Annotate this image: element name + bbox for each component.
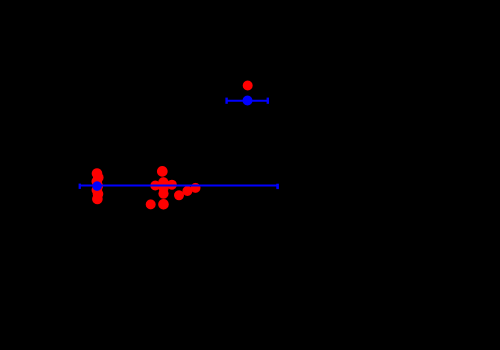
red scatter: left vertical cluster: [92, 168, 104, 204]
red scatter: middle cluster: [146, 166, 201, 210]
blue errorbar: top point: [225, 96, 269, 106]
blue errorbar: middle point: [79, 181, 279, 191]
red scatter: top point: [243, 81, 253, 91]
